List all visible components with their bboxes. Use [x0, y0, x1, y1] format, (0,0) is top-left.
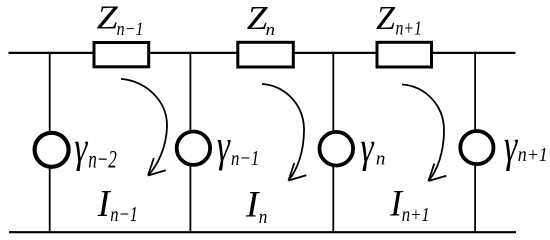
- current source circle gamma n-1: [177, 132, 210, 165]
- top bus wire: [9, 52, 516, 54]
- wire branch 2: [189, 52, 191, 232]
- svg-text:n+1: n+1: [402, 204, 430, 227]
- svg-text:n: n: [266, 20, 275, 39]
- svg-text:n−2: n−2: [88, 145, 117, 173]
- svg-text:γ: γ: [360, 123, 375, 171]
- wire branch 4: [474, 52, 476, 232]
- bottom bus wire: [9, 231, 516, 233]
- svg-text:γ: γ: [217, 121, 231, 171]
- svg-text:n: n: [259, 206, 268, 227]
- svg-text:n+1: n+1: [395, 17, 421, 39]
- current source circle gamma n-2: [35, 133, 69, 167]
- impedance box Z_n+1: [377, 42, 432, 67]
- impedance box Z_n-1: [94, 43, 149, 67]
- svg-text:I: I: [97, 183, 112, 225]
- wire branch 1: [49, 52, 51, 232]
- mesh current arrow I_n-1: [121, 79, 167, 176]
- wire branch 3: [332, 52, 334, 232]
- mesh current arrow I_n+1: [402, 85, 446, 182]
- svg-text:γ: γ: [504, 120, 518, 172]
- svg-text:Z: Z: [97, 0, 119, 36]
- current source circle gamma n+1: [460, 131, 493, 164]
- svg-text:n−1: n−1: [110, 203, 138, 226]
- svg-text:n−1: n−1: [117, 18, 144, 40]
- svg-text:I: I: [245, 185, 260, 226]
- svg-text:γ: γ: [74, 123, 89, 171]
- mesh current arrow I_n: [262, 84, 306, 181]
- svg-text:n+1: n+1: [518, 144, 548, 166]
- current source circle gamma n: [320, 132, 354, 166]
- svg-text:n−1: n−1: [231, 147, 259, 170]
- svg-text:Z: Z: [376, 0, 396, 37]
- impedance box Z_n: [238, 42, 293, 67]
- svg-text:n: n: [376, 149, 386, 170]
